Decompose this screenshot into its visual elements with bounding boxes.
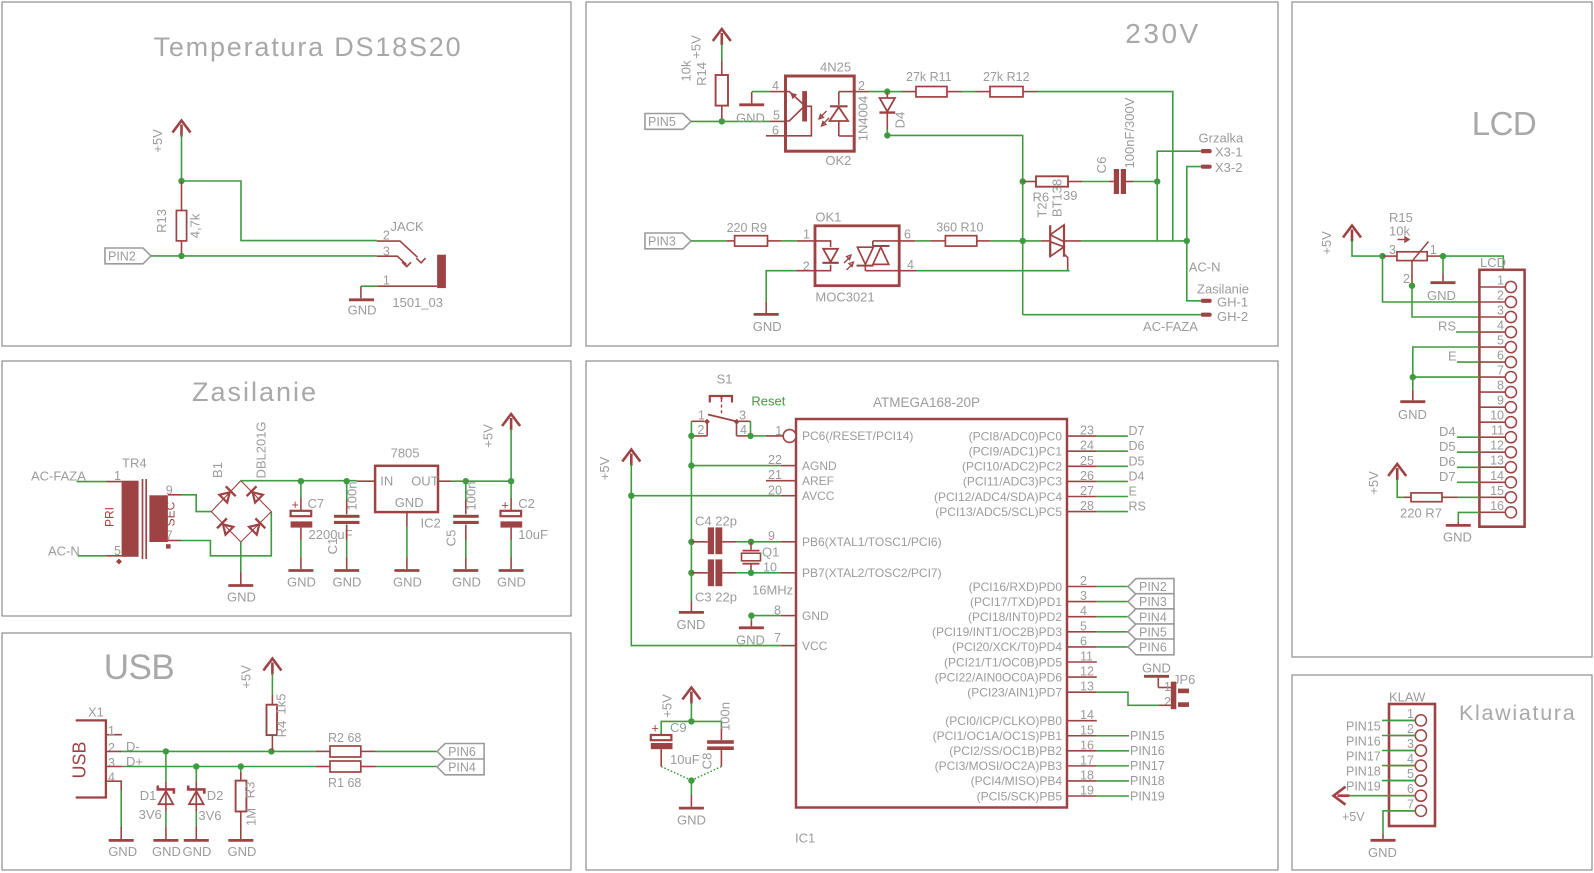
+5V supply symbol (KLAW, left) bbox=[1334, 787, 1366, 824]
resistor R4 1k5 bbox=[267, 674, 289, 752]
svg-text:GND: GND bbox=[452, 575, 481, 590]
svg-text:GND: GND bbox=[228, 844, 257, 859]
svg-text:BT138: BT138 bbox=[1050, 179, 1065, 217]
svg-text:Temperatura DS18S20: Temperatura DS18S20 bbox=[154, 32, 463, 62]
svg-text:15: 15 bbox=[1080, 723, 1094, 737]
svg-text:PB7(XTAL2/TOSC2/PCI7): PB7(XTAL2/TOSC2/PCI7) bbox=[802, 566, 942, 580]
svg-text:OK2: OK2 bbox=[825, 153, 851, 168]
svg-text:4: 4 bbox=[740, 423, 747, 437]
wire +5V to R15 pin3 bbox=[1352, 241, 1383, 257]
svg-text:R14: R14 bbox=[694, 62, 709, 86]
svg-text:+5V: +5V bbox=[1342, 810, 1365, 824]
svg-text:4: 4 bbox=[772, 79, 779, 93]
node junction C2 bbox=[508, 478, 514, 484]
svg-text:4: 4 bbox=[1407, 752, 1414, 766]
svg-text:(PCI21/T1/OC0B)PD5: (PCI21/T1/OC0B)PD5 bbox=[944, 655, 1062, 669]
wire KLAW pin7 to GND bbox=[1383, 811, 1415, 834]
svg-text:1: 1 bbox=[108, 724, 115, 738]
svg-text:4,7k: 4,7k bbox=[188, 213, 203, 238]
svg-text:(PCI12/ADC4/SDA)PC4: (PCI12/ADC4/SDA)PC4 bbox=[934, 490, 1062, 504]
wire R2 to PIN6 bbox=[376, 750, 437, 752]
node junction R15 wiper bbox=[1409, 283, 1415, 289]
svg-text:+5V: +5V bbox=[660, 694, 675, 718]
connector X1 USB bbox=[70, 705, 122, 798]
svg-text:Klawiatura: Klawiatura bbox=[1459, 701, 1576, 725]
svg-text:PIN18: PIN18 bbox=[1346, 765, 1381, 779]
svg-text:C9: C9 bbox=[670, 720, 687, 735]
svg-text:S1: S1 bbox=[717, 372, 733, 387]
svg-text:R4: R4 bbox=[274, 721, 289, 738]
svg-text:(PCI13/ADC5/SCL)PC5: (PCI13/ADC5/SCL)PC5 bbox=[935, 505, 1062, 519]
wire junction to triac bbox=[1023, 240, 1041, 242]
svg-text:(PCI3/MOSI/OC2A)PB3: (PCI3/MOSI/OC2A)PB3 bbox=[935, 759, 1063, 773]
svg-text:1: 1 bbox=[698, 408, 705, 422]
wire S1 left to GND net bbox=[690, 421, 692, 436]
crystal Q1 16MHz bbox=[742, 542, 794, 598]
wire R15 pin3 down to LCD pin2 bbox=[1383, 256, 1480, 302]
svg-text:(PCI22/AIN0OC0A)PD6: (PCI22/AIN0OC0A)PD6 bbox=[935, 670, 1063, 684]
svg-text:18: 18 bbox=[1080, 768, 1094, 782]
svg-text:10k: 10k bbox=[679, 60, 694, 81]
net flag PIN6 bbox=[437, 744, 484, 760]
node junction S1 pin4 bbox=[747, 433, 753, 439]
+5V supply symbol (ATMEGA) bbox=[597, 450, 640, 481]
wire TR4 pin7 to bridge bbox=[181, 512, 271, 556]
svg-text:7: 7 bbox=[1497, 364, 1504, 378]
svg-text:6: 6 bbox=[1080, 634, 1087, 648]
capacitor C3 22p bbox=[691, 559, 751, 604]
ground GND (C5) bbox=[452, 571, 481, 590]
IC1 pin 5 wire to PIN5 flag bbox=[1067, 619, 1128, 633]
svg-text:AGND: AGND bbox=[802, 459, 837, 473]
svg-text:C3 22p: C3 22p bbox=[695, 590, 737, 605]
svg-text:(PCI20/XCK/T0)PD4: (PCI20/XCK/T0)PD4 bbox=[952, 640, 1062, 654]
wire D- net bbox=[122, 750, 316, 752]
ground GND (C2) bbox=[497, 571, 526, 590]
svg-text:1M: 1M bbox=[244, 808, 259, 826]
svg-text:C8: C8 bbox=[700, 753, 715, 770]
svg-text:11: 11 bbox=[1491, 424, 1504, 438]
svg-text:PIN4: PIN4 bbox=[448, 761, 476, 775]
svg-text:(PCI8/ADC0)PC0: (PCI8/ADC0)PC0 bbox=[969, 429, 1063, 443]
IC1 pin 23 wire to D7 bbox=[1067, 424, 1145, 439]
svg-text:GND: GND bbox=[333, 575, 362, 590]
svg-text:2: 2 bbox=[1080, 574, 1087, 588]
inversion bubble IC1 pin1 bbox=[783, 430, 796, 443]
node junction R15 pin3 bbox=[1379, 253, 1385, 259]
svg-text:JACK: JACK bbox=[391, 219, 425, 234]
svg-text:C6: C6 bbox=[1094, 157, 1109, 174]
resistor R13 4,7k bbox=[154, 181, 203, 256]
svg-text:1: 1 bbox=[1164, 680, 1171, 694]
IC1 pin 4 wire to PIN4 flag bbox=[1067, 604, 1128, 618]
svg-text:GND: GND bbox=[1398, 407, 1427, 422]
node junction at R13 top bbox=[178, 178, 184, 184]
zener diode D2 3V6 bbox=[188, 767, 223, 840]
IC1 pin 2 wire to PIN2 flag bbox=[1067, 574, 1128, 588]
wire AC-FAZA to TR4 pin1 bbox=[77, 481, 106, 483]
svg-text:220 R9: 220 R9 bbox=[727, 221, 767, 235]
svg-text:GND: GND bbox=[677, 617, 706, 632]
node junction C7 bbox=[298, 478, 304, 484]
IC1 pin 24 wire to D6 bbox=[1067, 439, 1145, 454]
net flag PIN4 bbox=[437, 759, 484, 775]
svg-text:4N25: 4N25 bbox=[820, 60, 851, 75]
wire TR4 pin9 to bridge bbox=[181, 495, 211, 512]
wire S1 right side bbox=[750, 421, 752, 436]
svg-text:OUT: OUT bbox=[411, 473, 439, 488]
svg-text:R3: R3 bbox=[243, 782, 258, 799]
svg-text:(PCI0/ICP/CLKO)PB0: (PCI0/ICP/CLKO)PB0 bbox=[945, 714, 1062, 728]
svg-text:R2 68: R2 68 bbox=[328, 731, 361, 745]
svg-text:AC-N: AC-N bbox=[48, 544, 80, 559]
svg-text:1: 1 bbox=[1497, 274, 1504, 288]
wire bridge minus to GND bbox=[240, 542, 242, 573]
svg-text:USB: USB bbox=[104, 648, 174, 687]
svg-text:X3-2: X3-2 bbox=[1215, 160, 1242, 175]
svg-text:2: 2 bbox=[697, 423, 704, 437]
connector KLAW 7-pin bbox=[1389, 690, 1435, 827]
svg-text:USB: USB bbox=[70, 741, 90, 778]
svg-text:12: 12 bbox=[1080, 665, 1094, 679]
wire R12 to triac line bbox=[1038, 92, 1173, 241]
capacitor C1 100n bbox=[325, 481, 360, 569]
wire GND to OK2 pin4 bbox=[752, 91, 770, 93]
svg-text:PIN3: PIN3 bbox=[648, 235, 676, 249]
node junction D1/D- bbox=[163, 748, 169, 754]
svg-text:3: 3 bbox=[1497, 304, 1504, 318]
svg-text:(PCI5/SCK)PB5: (PCI5/SCK)PB5 bbox=[977, 789, 1063, 803]
ground GND (KLAW) bbox=[1368, 834, 1397, 861]
IC1 pin 27 wire to E bbox=[1067, 484, 1137, 499]
svg-text:(PCI23/AIN1)PD7: (PCI23/AIN1)PD7 bbox=[967, 686, 1062, 700]
svg-text:7: 7 bbox=[1407, 797, 1414, 811]
+5V supply symbol (LCD) bbox=[1319, 226, 1361, 255]
svg-text:1: 1 bbox=[1430, 243, 1437, 257]
wire PIN3 to R9 bbox=[691, 240, 727, 242]
+5V supply symbol (Zasilanie) bbox=[481, 414, 521, 448]
svg-text:1k5: 1k5 bbox=[274, 694, 289, 715]
IC1 pin 21 AREF stub bbox=[766, 468, 796, 482]
svg-text:(PCI17/TXD)PD1: (PCI17/TXD)PD1 bbox=[970, 595, 1062, 609]
IC1 pin 12 stub bbox=[1067, 665, 1097, 679]
pin X3-1 bbox=[1201, 145, 1243, 160]
node junction R14/PIN5 bbox=[719, 118, 725, 124]
IC1 pin 28 wire to RS bbox=[1067, 499, 1146, 513]
wire D+ net bbox=[122, 766, 316, 768]
wire +5V stem bbox=[510, 429, 512, 481]
svg-text:X1: X1 bbox=[88, 705, 104, 720]
IC1 pin 18 wire to PIN18 bbox=[1067, 768, 1165, 788]
svg-text:1: 1 bbox=[1407, 707, 1414, 721]
pin X3-2 bbox=[1201, 160, 1243, 175]
svg-text:2: 2 bbox=[858, 79, 865, 93]
svg-text:GND: GND bbox=[227, 590, 256, 605]
node junction PIN2/R13 bbox=[178, 253, 184, 259]
svg-text:100nF/300V: 100nF/300V bbox=[1122, 97, 1137, 168]
IC1 pin 17 wire to PIN17 bbox=[1067, 753, 1165, 773]
wire pin9 bbox=[751, 529, 796, 543]
wire D4 to R11 bbox=[887, 91, 901, 93]
svg-text:5: 5 bbox=[1080, 619, 1087, 633]
svg-text:2: 2 bbox=[1497, 289, 1504, 303]
svg-text:7805: 7805 bbox=[391, 446, 420, 461]
svg-text:C7: C7 bbox=[308, 496, 325, 511]
svg-text:100n: 100n bbox=[464, 482, 479, 511]
IC1 left pin name labels bbox=[802, 429, 942, 653]
svg-text:OK1: OK1 bbox=[815, 210, 841, 225]
svg-text:27k R12: 27k R12 bbox=[983, 70, 1030, 84]
wire +5V vertical to VCC bbox=[631, 465, 781, 646]
+5V supply symbol (R4) bbox=[239, 659, 282, 689]
svg-text:D4: D4 bbox=[1439, 424, 1456, 439]
resistor R3 1M bbox=[236, 767, 259, 840]
svg-text:PB6(XTAL1/TOSC1/PCI6): PB6(XTAL1/TOSC1/PCI6) bbox=[802, 535, 942, 549]
svg-text:C1: C1 bbox=[325, 538, 340, 555]
IC1 pin 6 wire to PIN6 flag bbox=[1067, 634, 1128, 648]
ground GND (X1) bbox=[108, 827, 137, 859]
node junction AVCC bbox=[628, 493, 634, 499]
node junction R10/triac bbox=[1020, 238, 1026, 244]
+5V supply symbol (R14) bbox=[689, 29, 731, 59]
svg-text:PIN3: PIN3 bbox=[1139, 595, 1167, 609]
svg-text:MOC3021: MOC3021 bbox=[815, 290, 874, 305]
svg-text:D4: D4 bbox=[1129, 469, 1145, 483]
diode D4 1N4004 bbox=[856, 92, 908, 142]
svg-text:D6: D6 bbox=[1129, 439, 1145, 453]
svg-text:GND: GND bbox=[1427, 288, 1456, 303]
svg-text:(PCI1/OC1A/OC1S)PB1: (PCI1/OC1A/OC1S)PB1 bbox=[933, 729, 1063, 743]
svg-text:14: 14 bbox=[1080, 708, 1094, 722]
svg-text:AREF: AREF bbox=[802, 474, 834, 488]
switch S1 bbox=[691, 372, 750, 438]
net label RS bbox=[1438, 319, 1479, 334]
wire +5V to R14 bbox=[721, 44, 723, 61]
svg-text:PIN16: PIN16 bbox=[1346, 735, 1381, 749]
node junction Q1 top bbox=[748, 539, 754, 545]
svg-text:Zasilanie: Zasilanie bbox=[192, 377, 318, 407]
svg-text:TR4: TR4 bbox=[122, 456, 147, 471]
svg-text:GND: GND bbox=[395, 495, 424, 510]
svg-text:5: 5 bbox=[1407, 767, 1414, 781]
wire R11 to R12 bbox=[962, 91, 976, 93]
svg-text:SEC: SEC bbox=[164, 501, 178, 526]
capacitor C5 100n bbox=[444, 481, 479, 569]
IC1 pin 19 wire to PIN19 bbox=[1067, 784, 1165, 804]
svg-text:12: 12 bbox=[1490, 439, 1504, 453]
svg-text:D5: D5 bbox=[1439, 439, 1456, 454]
svg-text:GND: GND bbox=[1443, 530, 1472, 545]
svg-text:(PCI19/INT1/OC2B)PD3: (PCI19/INT1/OC2B)PD3 bbox=[932, 625, 1062, 639]
net label D6 (LCD) bbox=[1439, 454, 1479, 469]
svg-text:PIN15: PIN15 bbox=[1346, 719, 1381, 733]
resistor R9 220 bbox=[727, 221, 782, 246]
svg-text:Q1: Q1 bbox=[762, 545, 779, 560]
svg-text:19: 19 bbox=[1080, 784, 1094, 798]
svg-text:2: 2 bbox=[1403, 272, 1410, 286]
svg-text:DBL201G: DBL201G bbox=[253, 421, 268, 478]
connector JACK 1501_03 bbox=[377, 219, 446, 310]
resistor R7 220 bbox=[1400, 493, 1458, 521]
svg-text:IC1: IC1 bbox=[795, 831, 815, 846]
wire junction up to X3-1 bbox=[1157, 151, 1201, 181]
svg-text:ATMEGA168-20P: ATMEGA168-20P bbox=[873, 395, 980, 410]
svg-text:D6: D6 bbox=[1439, 454, 1456, 469]
svg-text:GND: GND bbox=[287, 575, 316, 590]
svg-text:IN: IN bbox=[380, 473, 393, 488]
capacitor C4 22p bbox=[691, 514, 751, 555]
svg-text:17: 17 bbox=[1080, 753, 1094, 767]
resistor R14 10k bbox=[679, 60, 729, 121]
+5V supply symbol (C9/C8) bbox=[660, 688, 701, 718]
wire +5V to KLAW pin6 bbox=[1349, 795, 1416, 797]
svg-text:8: 8 bbox=[1497, 379, 1504, 393]
svg-text:4: 4 bbox=[1497, 319, 1504, 333]
node junction R26 left bbox=[1020, 178, 1026, 184]
node junction C4 left bbox=[688, 539, 694, 545]
net label PIN15 (KLAW) bbox=[1346, 719, 1415, 733]
svg-text:GND: GND bbox=[152, 844, 181, 859]
ground GND (IC1 pin8) bbox=[736, 616, 765, 648]
svg-text:LCD: LCD bbox=[1480, 255, 1506, 270]
svg-text:3V6: 3V6 bbox=[198, 808, 221, 823]
wire S1 to IC1 pin1 bbox=[751, 435, 767, 437]
svg-text:D5: D5 bbox=[1129, 454, 1145, 468]
svg-text:+5V: +5V bbox=[239, 665, 254, 689]
ground GND (R3) bbox=[228, 840, 257, 859]
net label D7 (LCD) bbox=[1439, 469, 1479, 484]
svg-text:16: 16 bbox=[1080, 738, 1094, 752]
resistor R1 68 bbox=[316, 761, 376, 790]
resistor R2 68 bbox=[316, 731, 376, 757]
pin GH-2 bbox=[1201, 309, 1248, 324]
svg-text:25: 25 bbox=[1080, 454, 1094, 468]
net flag PIN5 bbox=[645, 114, 691, 130]
wire R26 to C6 bbox=[1082, 181, 1109, 183]
net label PIN18 (KLAW) bbox=[1346, 765, 1415, 779]
svg-text:15: 15 bbox=[1490, 484, 1504, 498]
svg-text:IC2: IC2 bbox=[421, 516, 441, 531]
IC1 pin 3 wire to PIN3 flag bbox=[1067, 589, 1128, 603]
capacitor C9 10uF bbox=[651, 720, 700, 780]
connector LCD 16-pin bbox=[1479, 255, 1524, 527]
svg-text:B1: B1 bbox=[210, 462, 225, 478]
svg-text:3: 3 bbox=[1389, 243, 1396, 257]
voltage regulator IC2 7805 bbox=[357, 446, 452, 570]
svg-text:21: 21 bbox=[768, 468, 782, 482]
node junction D2/D+ bbox=[193, 763, 199, 769]
svg-text:(PCI9/ADC1)PC1: (PCI9/ADC1)PC1 bbox=[969, 445, 1063, 459]
svg-text:24: 24 bbox=[1080, 439, 1094, 453]
svg-text:KLAW: KLAW bbox=[1389, 690, 1426, 705]
node junction Q1 bottom bbox=[748, 570, 754, 576]
svg-text:4: 4 bbox=[108, 770, 115, 784]
wire C6 to X3 junction bbox=[1133, 181, 1157, 183]
svg-text:T2: T2 bbox=[1035, 202, 1050, 217]
svg-text:20: 20 bbox=[768, 484, 782, 498]
svg-text:PIN4: PIN4 bbox=[1139, 610, 1167, 624]
ground GND (IC2) bbox=[393, 571, 422, 590]
svg-text:C2: C2 bbox=[518, 496, 535, 511]
bridge rectifier B1 DBL201G bbox=[210, 421, 271, 542]
svg-text:PIN2: PIN2 bbox=[1139, 580, 1167, 594]
svg-text:6: 6 bbox=[904, 228, 911, 242]
svg-text:Reset: Reset bbox=[751, 394, 785, 409]
svg-text:R6: R6 bbox=[1033, 190, 1050, 205]
svg-text:5: 5 bbox=[773, 109, 780, 123]
ground GND (LCD 16) bbox=[1443, 522, 1472, 545]
svg-text:1501_03: 1501_03 bbox=[392, 295, 443, 310]
svg-text:1N4004: 1N4004 bbox=[856, 96, 871, 142]
resistor R26 bbox=[1023, 176, 1082, 217]
svg-text:GH-2: GH-2 bbox=[1217, 309, 1248, 324]
svg-text:PIN6: PIN6 bbox=[448, 745, 476, 759]
node junction R4/D- bbox=[268, 748, 274, 754]
svg-text:(PCI4/MISO)PB4: (PCI4/MISO)PB4 bbox=[971, 774, 1063, 788]
ground GND (bridge) bbox=[227, 573, 256, 605]
svg-text:23: 23 bbox=[1080, 424, 1094, 438]
svg-text:+5V: +5V bbox=[481, 424, 496, 448]
svg-text:PIN15: PIN15 bbox=[1130, 729, 1165, 743]
svg-text:10k: 10k bbox=[1389, 223, 1410, 238]
svg-text:100n: 100n bbox=[345, 482, 360, 511]
jumper JP6 bbox=[1158, 672, 1195, 709]
node junction C3 left bbox=[688, 570, 694, 576]
ground GND (LCD 5/7) bbox=[1398, 377, 1427, 422]
GND net vertical bbox=[690, 436, 692, 602]
net label PIN19 (KLAW) bbox=[1346, 780, 1415, 794]
svg-text:27: 27 bbox=[1080, 484, 1094, 498]
node junction C6/X3-1 bbox=[1154, 178, 1160, 184]
wire R1 to PIN4 bbox=[376, 766, 437, 768]
wire PIN2 to jack pin3 bbox=[151, 255, 377, 257]
wire OK1 pin6 to R10 bbox=[899, 240, 915, 242]
svg-text:GND: GND bbox=[677, 813, 706, 828]
svg-text:PIN5: PIN5 bbox=[648, 115, 676, 129]
wire OK2 pin2 to D4 bbox=[854, 91, 869, 93]
wire pin10 bbox=[751, 561, 796, 575]
wire triac to X3-2 junction bbox=[1065, 240, 1082, 242]
wire LCD pin5/pin7 to GND bbox=[1413, 347, 1480, 377]
svg-text:E: E bbox=[1448, 349, 1457, 364]
ground GND (C3/C4 net) bbox=[677, 602, 706, 633]
net label D5 (LCD) bbox=[1439, 439, 1479, 454]
svg-text:PIN19: PIN19 bbox=[1346, 780, 1381, 794]
wire +5V to junction bbox=[690, 703, 692, 722]
svg-text:7: 7 bbox=[774, 631, 781, 645]
svg-text:PIN5: PIN5 bbox=[1139, 625, 1167, 639]
IC1 pin 14 stub bbox=[1067, 708, 1097, 722]
wire +5V to R7 bbox=[1397, 479, 1404, 497]
svg-text:9: 9 bbox=[768, 529, 775, 543]
ground GND (jack) bbox=[348, 286, 377, 317]
svg-text:D7: D7 bbox=[1129, 424, 1145, 438]
wire R15 pin1 to LCD pin1 bbox=[1443, 256, 1505, 287]
svg-text:PIN18: PIN18 bbox=[1130, 774, 1165, 788]
svg-text:LCD: LCD bbox=[1472, 105, 1537, 142]
net flag PIN6 bbox=[1128, 639, 1174, 655]
svg-text:230V: 230V bbox=[1125, 18, 1200, 49]
svg-text:PIN16: PIN16 bbox=[1130, 744, 1165, 758]
svg-text:R1 68: R1 68 bbox=[328, 776, 361, 790]
svg-text:D2: D2 bbox=[207, 788, 224, 803]
ground GND (D2) bbox=[183, 840, 212, 859]
svg-text:2: 2 bbox=[1407, 722, 1414, 736]
svg-text:GND: GND bbox=[183, 844, 212, 859]
svg-text:13: 13 bbox=[1080, 680, 1094, 694]
svg-text:JP6: JP6 bbox=[1173, 672, 1195, 687]
svg-text:+5V: +5V bbox=[150, 129, 165, 153]
